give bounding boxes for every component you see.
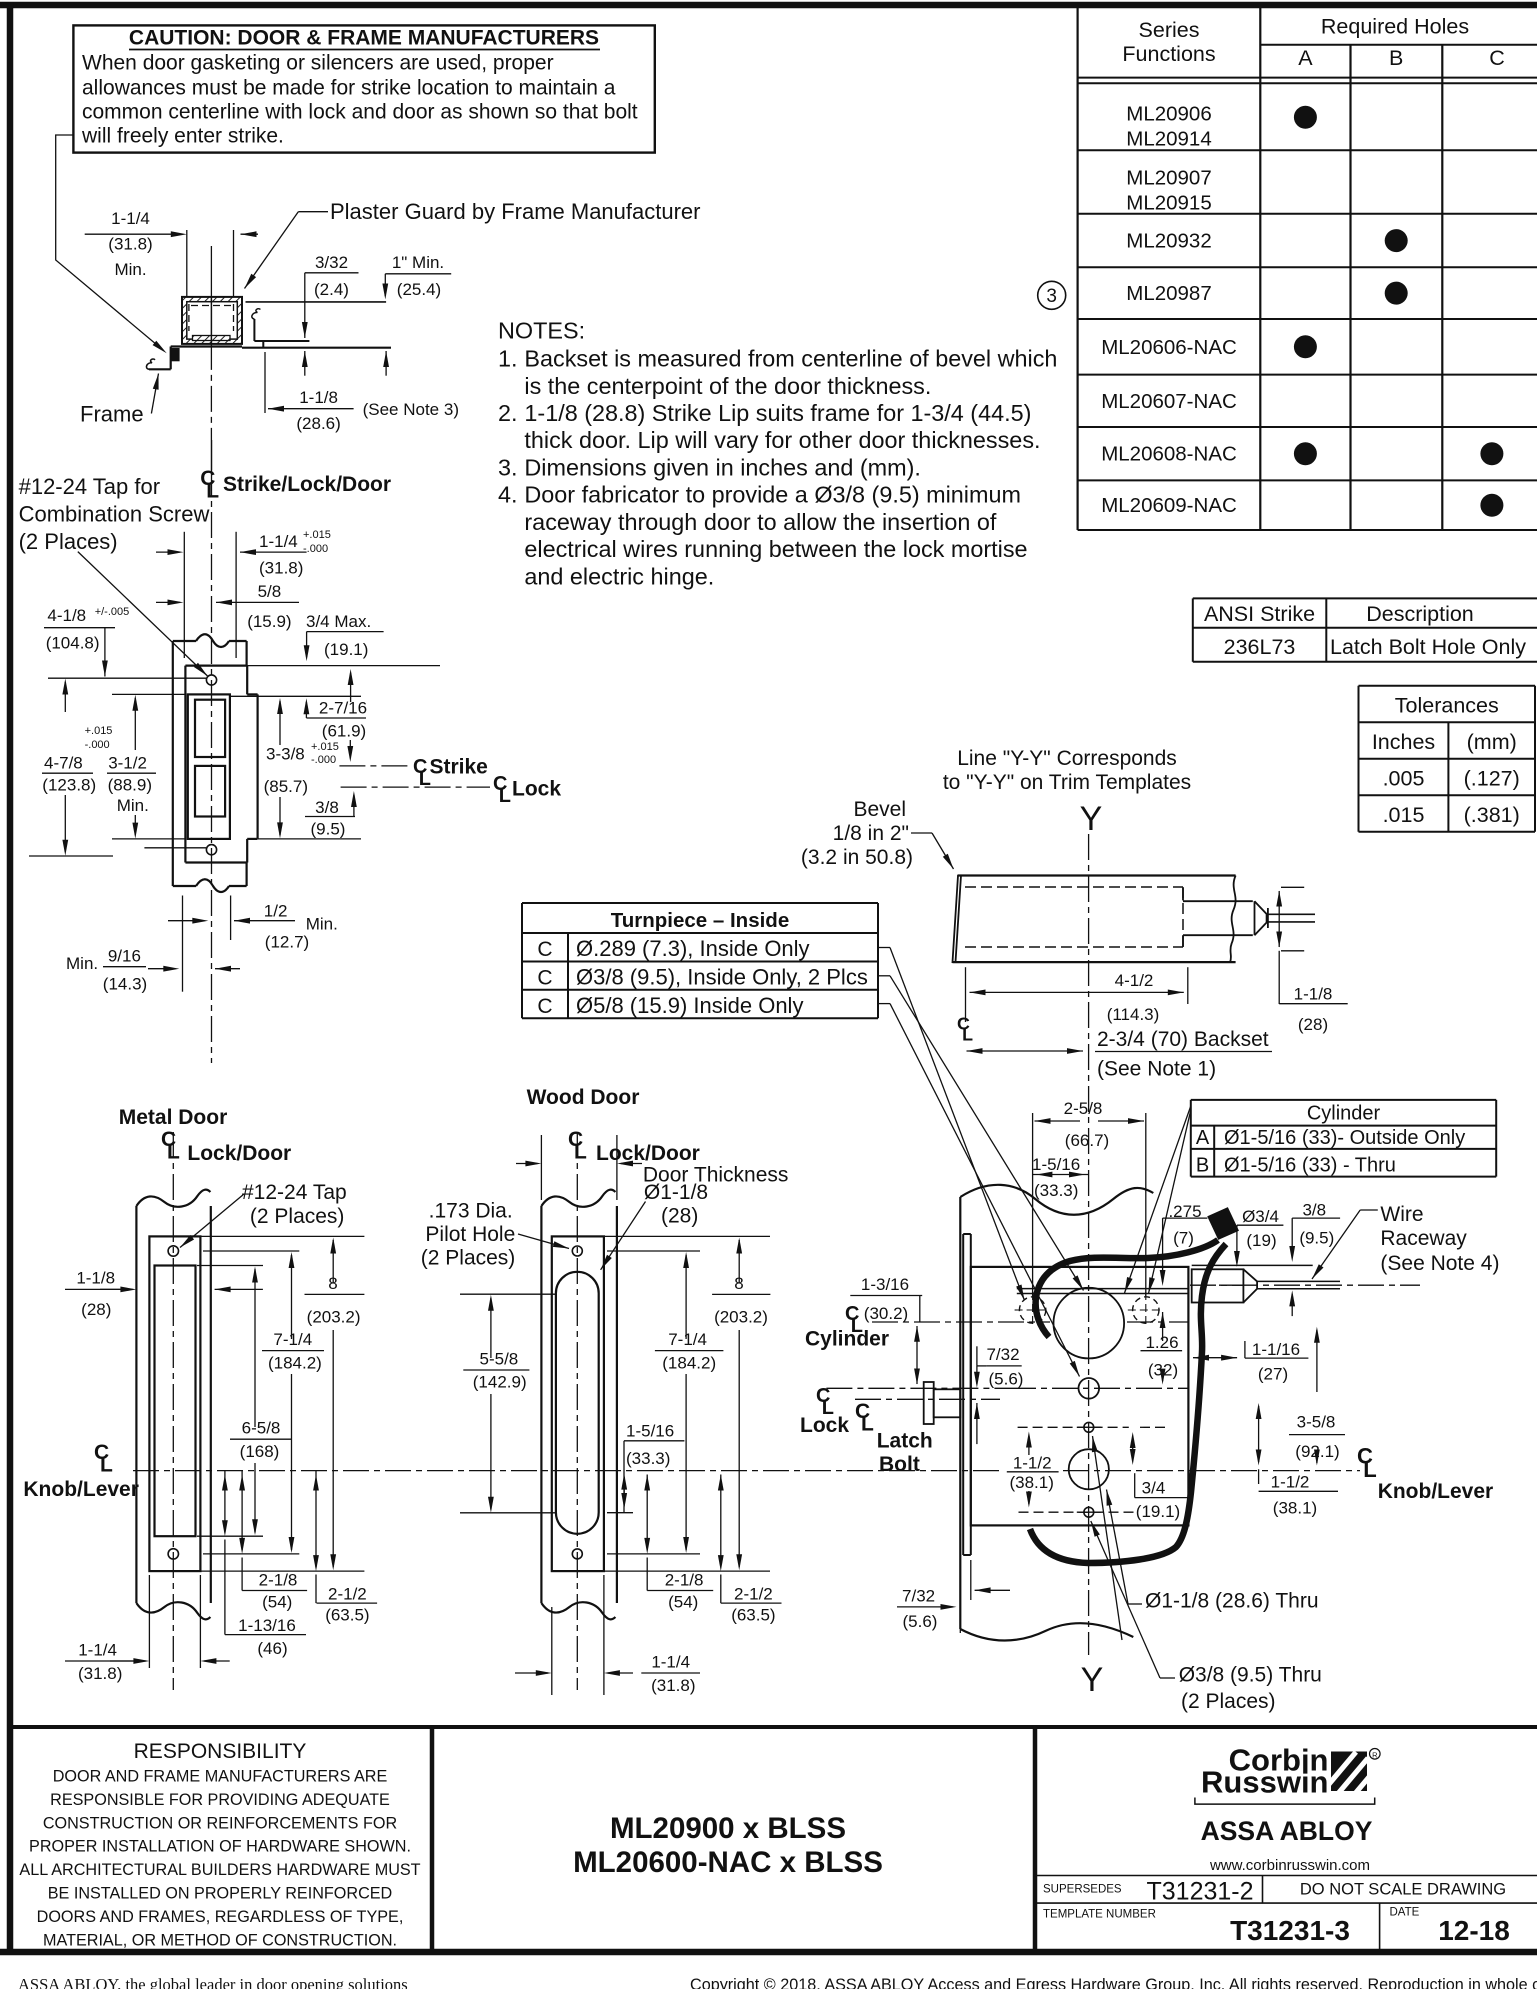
svg-text:3-1/2: 3-1/2 [108,753,147,772]
svg-text:1-1/4: 1-1/4 [651,1653,690,1672]
svg-text:(33.3): (33.3) [626,1449,670,1468]
svg-text:Line "Y-Y" Corresponds: Line "Y-Y" Corresponds [957,747,1177,770]
svg-text:Ø1-1/8 (28.6) Thru: Ø1-1/8 (28.6) Thru [1145,1590,1319,1613]
svg-text:Knob/Lever: Knob/Lever [23,1478,139,1501]
svg-text:DOORS AND FRAMES, REGARDLESS O: DOORS AND FRAMES, REGARDLESS OF TYPE, [37,1908,404,1926]
svg-text:(See Note 3): (See Note 3) [363,400,459,419]
svg-text:(66.7): (66.7) [1065,1131,1109,1150]
svg-text:(28): (28) [661,1205,698,1228]
svg-text:(14.3): (14.3) [103,974,147,993]
svg-text:(92.1): (92.1) [1295,1442,1339,1461]
svg-text:Ø5/8 (15.9) Inside Only: Ø5/8 (15.9) Inside Only [576,993,803,1018]
svg-text:1-1/4: 1-1/4 [259,532,298,551]
svg-text:(19.1): (19.1) [1136,1502,1180,1521]
svg-text:1-5/16: 1-5/16 [1032,1155,1080,1174]
svg-text:4-1/2: 4-1/2 [1115,971,1154,990]
svg-text:(31.8): (31.8) [651,1676,695,1695]
svg-text:(mm): (mm) [1467,730,1517,754]
svg-text:Min.: Min. [117,796,149,815]
svg-text:L: L [962,1025,973,1045]
svg-text:(28.6): (28.6) [296,414,340,433]
svg-text:(28): (28) [81,1300,111,1319]
svg-text:Dimensions given in inches and: Dimensions given in inches and (mm). [524,455,921,481]
svg-text:.005: .005 [1383,767,1425,791]
svg-text:5-5/8: 5-5/8 [480,1349,519,1368]
svg-text:Ø1-5/16 (33) - Thru: Ø1-5/16 (33) - Thru [1224,1155,1396,1177]
svg-text:(54): (54) [262,1593,292,1612]
svg-text:Cylinder: Cylinder [1307,1103,1381,1125]
svg-text:(184.2): (184.2) [662,1353,716,1372]
svg-text:Raceway: Raceway [1380,1227,1467,1250]
svg-text:(28): (28) [1298,1015,1328,1034]
svg-text:T31231-3: T31231-3 [1230,1915,1350,1946]
svg-text:is the centerpoint of the door: is the centerpoint of the door thickness… [524,373,931,399]
svg-text:7-1/4: 7-1/4 [273,1330,312,1349]
svg-text:(46): (46) [257,1639,287,1658]
svg-text:Copyright © 2018, ASSA ABLOY A: Copyright © 2018, ASSA ABLOY Access and … [690,1976,1537,1989]
svg-text:1/2: 1/2 [264,902,288,921]
svg-text:(123.8): (123.8) [42,776,96,795]
svg-text:Ø1-5/16 (33)- Outside Only: Ø1-5/16 (33)- Outside Only [1224,1127,1465,1149]
svg-text:electrical wires running betwe: electrical wires running between the loc… [524,536,1027,562]
svg-text:ML20915: ML20915 [1126,191,1211,214]
svg-text:2-1/8: 2-1/8 [259,1571,298,1590]
svg-text:RESPONSIBLE FOR PROVIDING ADEQ: RESPONSIBLE FOR PROVIDING ADEQUATE [50,1791,390,1809]
svg-text:Description: Description [1366,602,1474,626]
svg-text:ML20600-NAC x BLSS: ML20600-NAC x BLSS [573,1846,883,1879]
svg-text:(12.7): (12.7) [265,933,309,952]
svg-text:1" Min.: 1" Min. [392,253,444,272]
svg-text:3-3/8: 3-3/8 [266,744,305,763]
svg-text:.015: .015 [1383,803,1425,827]
svg-text:Required Holes: Required Holes [1321,15,1469,39]
svg-text:L: L [1363,1457,1376,1482]
svg-text:(54): (54) [668,1593,698,1612]
svg-text:Min.: Min. [306,915,338,934]
svg-text:ML20608-NAC: ML20608-NAC [1101,443,1237,466]
svg-text:-.000: -.000 [311,754,336,766]
svg-text:Cylinder: Cylinder [805,1328,889,1351]
svg-text:3/4 Max.: 3/4 Max. [306,612,371,631]
svg-text:Ø.289 (7.3), Inside Only: Ø.289 (7.3), Inside Only [576,936,810,961]
svg-text:Turnpiece – Inside: Turnpiece – Inside [611,909,789,932]
svg-text:-.000: -.000 [303,543,328,555]
svg-text:2-1/2: 2-1/2 [328,1584,367,1603]
svg-text:+.015: +.015 [85,725,113,737]
svg-text:common centerline with lock an: common centerline with lock and door as … [82,101,638,124]
svg-text:#12-24 Tap for: #12-24 Tap for [19,474,160,499]
svg-text:1.: 1. [498,346,518,372]
svg-text:ML20907: ML20907 [1126,166,1211,189]
svg-text:C: C [537,995,552,1018]
svg-text:.173 Dia.: .173 Dia. [429,1200,513,1223]
svg-text:(61.9): (61.9) [322,722,366,741]
svg-text:allowances must be made for st: allowances must be made for strike locat… [82,77,616,100]
svg-text:(203.2): (203.2) [307,1308,361,1327]
svg-text:2-3/4 (70) Backset: 2-3/4 (70) Backset [1097,1028,1269,1051]
svg-text:(31.8): (31.8) [259,559,303,578]
svg-text:2-7/16: 2-7/16 [319,699,367,718]
svg-text:3/32: 3/32 [315,253,348,272]
svg-text:Ø3/8 (9.5), Inside Only, 2 Plc: Ø3/8 (9.5), Inside Only, 2 Plcs [576,965,868,990]
svg-text:1-1/8: 1-1/8 [1294,985,1333,1004]
svg-text:(30.2): (30.2) [864,1304,908,1323]
svg-text:(3.2 in 50.8): (3.2 in 50.8) [801,846,913,869]
svg-text:B: B [1196,1155,1209,1177]
svg-text:Latch: Latch [877,1430,933,1453]
svg-text:Ø3/4: Ø3/4 [1242,1207,1279,1226]
svg-text:1-1/4: 1-1/4 [78,1641,117,1660]
svg-text:236L73: 236L73 [1224,635,1296,659]
svg-text:RESPONSIBILITY: RESPONSIBILITY [134,1740,307,1763]
svg-text:(7): (7) [1173,1228,1194,1247]
svg-text:CAUTION: DOOR & FRAME MANUFACT: CAUTION: DOOR & FRAME MANUFACTURERS [129,27,599,50]
svg-text:ANSI Strike: ANSI Strike [1204,602,1315,626]
svg-text:ML20914: ML20914 [1126,128,1211,151]
svg-text:TEMPLATE NUMBER: TEMPLATE NUMBER [1043,1909,1156,1921]
svg-text:Wire: Wire [1380,1203,1423,1226]
svg-text:(19): (19) [1246,1231,1276,1250]
svg-text:2-1/2: 2-1/2 [734,1584,773,1603]
svg-text:CONSTRUCTION OR REINFORCEMENTS: CONSTRUCTION OR REINFORCEMENTS FOR [43,1814,397,1832]
svg-text:Strike: Strike [430,756,488,779]
svg-text:B: B [1389,46,1403,70]
svg-text:2-5/8: 2-5/8 [1064,1099,1103,1118]
svg-text:3/8: 3/8 [1302,1201,1326,1220]
svg-text:Pilot Hole: Pilot Hole [425,1223,515,1246]
svg-text:(5.6): (5.6) [989,1370,1024,1389]
svg-text:L: L [100,1454,113,1477]
svg-text:7/32: 7/32 [902,1587,935,1606]
svg-text:A: A [1298,46,1313,70]
svg-text:Combination Screw: Combination Screw [19,502,210,527]
svg-text:(27): (27) [1258,1365,1288,1384]
svg-text:When door gasketing or silence: When door gasketing or silencers are use… [82,52,554,75]
svg-text:ML20607-NAC: ML20607-NAC [1101,390,1237,413]
svg-text:1-1/8: 1-1/8 [299,388,338,407]
svg-text:ML20987: ML20987 [1126,282,1211,305]
svg-text:-.000: -.000 [85,739,110,751]
svg-text:1-1/4: 1-1/4 [111,209,150,228]
svg-text:1-13/16: 1-13/16 [238,1616,296,1635]
svg-text:(.127): (.127) [1464,767,1520,791]
svg-text:SUPERSEDES: SUPERSEDES [1043,1884,1122,1896]
svg-text:Russwin: Russwin [1201,1765,1328,1800]
svg-text:(85.7): (85.7) [264,777,308,796]
svg-text:Series: Series [1139,18,1200,42]
svg-text:Ø1-1/8: Ø1-1/8 [644,1181,708,1204]
svg-text:Lock/Door: Lock/Door [596,1142,700,1165]
svg-text:(63.5): (63.5) [325,1605,369,1624]
svg-text:12-18: 12-18 [1438,1915,1510,1946]
svg-text:Inches: Inches [1372,730,1435,754]
svg-text:Functions: Functions [1122,42,1215,66]
svg-text:Frame: Frame [80,402,144,427]
svg-text:ASSA ABLOY: ASSA ABLOY [1201,1816,1373,1846]
svg-text:thick door. Lip will vary for: thick door. Lip will vary for other door… [524,427,1040,453]
svg-text:Lock/Door: Lock/Door [187,1142,291,1165]
svg-text:(104.8): (104.8) [46,633,100,652]
svg-text:Tolerances: Tolerances [1395,694,1499,718]
svg-text:1-1/8 (28.8) Strike Lip suits: 1-1/8 (28.8) Strike Lip suits frame for … [524,400,1031,426]
svg-text:ML20900 x BLSS: ML20900 x BLSS [610,1812,846,1845]
svg-text:7-1/4: 7-1/4 [668,1330,707,1349]
svg-text:BE INSTALLED ON PROPERLY REINF: BE INSTALLED ON PROPERLY REINFORCED [48,1885,393,1903]
svg-text:3-5/8: 3-5/8 [1297,1412,1336,1431]
svg-text:1-3/16: 1-3/16 [861,1275,909,1294]
svg-text:(15.9): (15.9) [247,612,291,631]
svg-text:(25.4): (25.4) [397,280,441,299]
svg-text:to "Y-Y" on Trim Templates: to "Y-Y" on Trim Templates [943,771,1191,794]
svg-text:www.corbinrusswin.com: www.corbinrusswin.com [1209,1857,1370,1874]
svg-text:C: C [537,967,552,990]
svg-text:1-1/2: 1-1/2 [1013,1453,1052,1472]
svg-text:will freely enter strike.: will freely enter strike. [81,125,284,148]
svg-text:+.015: +.015 [303,529,331,541]
svg-text:PROPER INSTALLATION OF HARDWAR: PROPER INSTALLATION OF HARDWARE SHOWN. [29,1838,411,1856]
svg-text:MATERIAL, OR METHOD OF CONSTRU: MATERIAL, OR METHOD OF CONSTRUCTION. [43,1931,397,1949]
svg-text:T31231-2: T31231-2 [1146,1878,1253,1906]
svg-text:(63.5): (63.5) [731,1605,775,1624]
svg-text:Door fabricator to provide a Ø: Door fabricator to provide a Ø3/8 (9.5) … [524,482,1021,508]
svg-text:Y: Y [1081,1661,1104,1699]
svg-text:ML20606-NAC: ML20606-NAC [1101,336,1237,359]
svg-text:C: C [1489,46,1505,70]
svg-text:Knob/Lever: Knob/Lever [1378,1480,1494,1503]
svg-text:and electric hinge.: and electric hinge. [524,563,714,589]
svg-text:2-1/8: 2-1/8 [665,1571,704,1590]
svg-text:(31.8): (31.8) [108,235,152,254]
svg-text:3.: 3. [498,455,518,481]
svg-text:3/4: 3/4 [1142,1479,1166,1498]
svg-text:DOOR AND FRAME MANUFACTURERS A: DOOR AND FRAME MANUFACTURERS ARE [53,1768,388,1786]
svg-text:ML20906: ML20906 [1126,103,1211,126]
svg-text:9/16: 9/16 [108,947,141,966]
svg-text:(168): (168) [240,1442,280,1461]
svg-text:4.: 4. [498,482,518,508]
svg-text:(142.9): (142.9) [473,1373,527,1392]
svg-text:(88.9): (88.9) [108,776,152,795]
svg-text:Y: Y [1080,800,1103,838]
svg-text:1-1/8: 1-1/8 [76,1269,115,1288]
svg-text:(2 Places): (2 Places) [250,1205,345,1228]
svg-text:Min.: Min. [114,260,146,279]
svg-text:(9.5): (9.5) [311,820,346,839]
svg-text:(2.4): (2.4) [314,280,349,299]
svg-text:(2 Places): (2 Places) [1181,1690,1276,1713]
svg-text:(203.2): (203.2) [714,1308,768,1327]
svg-text:1/8 in 2": 1/8 in 2" [833,822,909,845]
svg-text:ML20609-NAC: ML20609-NAC [1101,494,1237,517]
svg-text:(33.3): (33.3) [1034,1181,1078,1200]
svg-text:raceway through door to allow: raceway through door to allow the insert… [524,509,996,535]
svg-text:4-7/8: 4-7/8 [44,753,83,772]
svg-text:(184.2): (184.2) [268,1353,322,1372]
svg-text:NOTES:: NOTES: [498,317,585,343]
svg-text:DATE: DATE [1390,1907,1420,1919]
svg-text:+/-.005: +/-.005 [95,606,130,618]
svg-text:C: C [537,938,552,961]
svg-text:7/32: 7/32 [986,1345,1019,1364]
svg-text:(38.1): (38.1) [1273,1499,1317,1518]
svg-text:A: A [1196,1127,1210,1149]
svg-text:Metal Door: Metal Door [119,1106,228,1129]
svg-text:(19.1): (19.1) [324,640,368,659]
svg-text:(See Note 4): (See Note 4) [1380,1252,1499,1275]
svg-text:L: L [206,480,219,503]
svg-text:4-1/8: 4-1/8 [47,606,86,625]
svg-text:Lock: Lock [800,1414,849,1437]
svg-text:Latch Bolt Hole Only: Latch Bolt Hole Only [1330,635,1526,659]
svg-text:Ø3/8 (9.5) Thru: Ø3/8 (9.5) Thru [1179,1664,1322,1687]
svg-text:Wood Door: Wood Door [527,1086,640,1109]
svg-text:3: 3 [1046,286,1057,307]
svg-text:6-5/8: 6-5/8 [242,1419,281,1438]
svg-text:DO NOT SCALE DRAWING: DO NOT SCALE DRAWING [1300,1881,1506,1899]
svg-text:L: L [861,1413,874,1436]
svg-text:1-5/16: 1-5/16 [626,1422,674,1441]
svg-text:R: R [1372,1750,1378,1759]
svg-text:(31.8): (31.8) [78,1664,122,1683]
svg-text:+.015: +.015 [311,741,339,753]
svg-text:L: L [574,1141,587,1164]
svg-text:Bolt: Bolt [879,1453,920,1476]
svg-text:5/8: 5/8 [258,582,282,601]
svg-text:#12-24 Tap: #12-24 Tap [242,1181,347,1204]
svg-text:1-1/16: 1-1/16 [1252,1340,1300,1359]
svg-text:Plaster Guard by Frame Manufac: Plaster Guard by Frame Manufacturer [330,199,700,224]
svg-text:(.381): (.381) [1464,803,1520,827]
svg-text:(38.1): (38.1) [1009,1473,1053,1492]
svg-text:Lock: Lock [512,778,561,801]
svg-text:2.: 2. [498,400,518,426]
svg-text:ML20932: ML20932 [1126,230,1211,253]
svg-text:3/8: 3/8 [315,798,339,817]
svg-text:Backset is measured from cente: Backset is measured from centerline of b… [524,346,1057,372]
svg-text:(See Note 1): (See Note 1) [1097,1058,1216,1081]
svg-text:(2 Places): (2 Places) [19,529,118,554]
svg-text:Bevel: Bevel [853,798,906,821]
svg-text:ALL ARCHITECTURAL BUILDERS HAR: ALL ARCHITECTURAL BUILDERS HARDWARE MUST [19,1861,420,1879]
svg-text:ASSA ABLOY, the global leader: ASSA ABLOY, the global leader in door op… [18,1975,408,1989]
svg-text:(2 Places): (2 Places) [421,1247,516,1270]
svg-text:1-1/2: 1-1/2 [1271,1472,1310,1491]
svg-text:Strike/Lock/Door: Strike/Lock/Door [223,473,391,496]
svg-text:L: L [499,785,511,807]
svg-text:Min.: Min. [66,954,98,973]
svg-text:(9.5): (9.5) [1299,1228,1334,1247]
svg-text:(5.6): (5.6) [903,1612,938,1631]
svg-text:(114.3): (114.3) [1107,1005,1160,1024]
